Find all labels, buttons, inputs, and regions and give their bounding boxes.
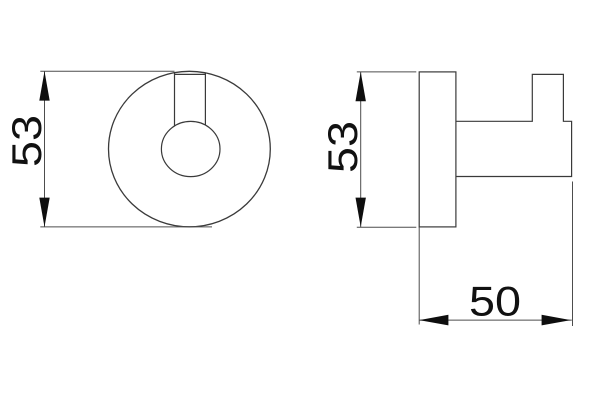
svg-text:50: 50 (469, 277, 521, 324)
svg-text:53: 53 (319, 121, 366, 173)
svg-text:53: 53 (3, 115, 50, 167)
